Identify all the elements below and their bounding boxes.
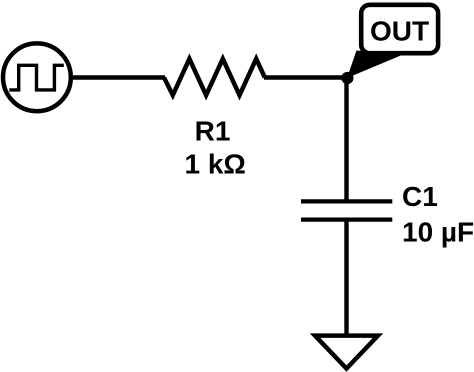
svg-text:OUT: OUT: [370, 16, 429, 47]
resistor R1: [164, 59, 265, 95]
capacitor C1 top plate: [301, 199, 392, 203]
flag OUT box: [361, 5, 438, 53]
svg-text:10 µF: 10 µF: [402, 216, 474, 247]
node OUT junction: [341, 72, 353, 84]
flag OUT tail: [347, 51, 402, 79]
wire node to capacitor: [344, 78, 348, 201]
wire resistor to node: [264, 75, 348, 79]
ground: [315, 336, 378, 369]
svg-text:C1: C1: [402, 181, 438, 212]
capacitor C1 bottom plate: [301, 217, 392, 221]
wire capacitor to ground: [344, 220, 348, 336]
wire source to resistor: [70, 75, 165, 79]
square-wave source V1: [3, 43, 71, 111]
svg-text:1 kΩ: 1 kΩ: [185, 148, 246, 179]
svg-text:R1: R1: [195, 116, 231, 147]
